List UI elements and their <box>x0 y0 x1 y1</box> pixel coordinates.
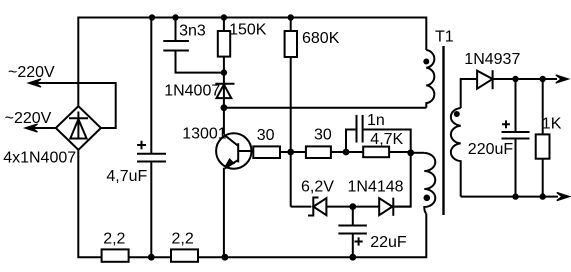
svg-text:4x1N4007: 4x1N4007 <box>3 149 76 166</box>
svg-text:2,2: 2,2 <box>103 230 125 247</box>
svg-text:30: 30 <box>314 127 332 144</box>
svg-text:4,7uF: 4,7uF <box>106 168 147 185</box>
svg-text:2,2: 2,2 <box>172 230 194 247</box>
svg-text:6,2V: 6,2V <box>301 179 334 196</box>
svg-text:~220V: ~220V <box>8 64 55 81</box>
svg-text:1K: 1K <box>542 116 562 133</box>
svg-text:22uF: 22uF <box>370 234 407 251</box>
svg-text:220uF: 220uF <box>468 141 514 158</box>
svg-text:30: 30 <box>257 127 275 144</box>
svg-text:T1: T1 <box>435 29 454 46</box>
svg-text:680K: 680K <box>302 30 340 47</box>
svg-text:3n3: 3n3 <box>179 22 206 39</box>
svg-text:150K: 150K <box>229 21 267 38</box>
svg-text:13001: 13001 <box>182 126 227 143</box>
svg-text:1N4007: 1N4007 <box>164 83 220 100</box>
svg-text:1n: 1n <box>367 112 385 129</box>
svg-text:1N4148: 1N4148 <box>348 179 404 196</box>
svg-text:~220V: ~220V <box>5 110 52 127</box>
svg-text:4,7K: 4,7K <box>370 131 403 148</box>
svg-text:1N4937: 1N4937 <box>464 51 520 68</box>
